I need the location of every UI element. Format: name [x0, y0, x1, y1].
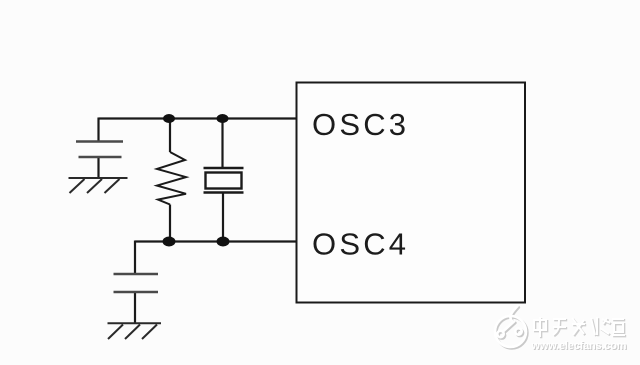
svg-text:www.elecfans.com: www.elecfans.com: [531, 340, 627, 352]
svg-text:OSC4: OSC4: [312, 227, 409, 262]
svg-text:OSC3: OSC3: [312, 107, 409, 142]
